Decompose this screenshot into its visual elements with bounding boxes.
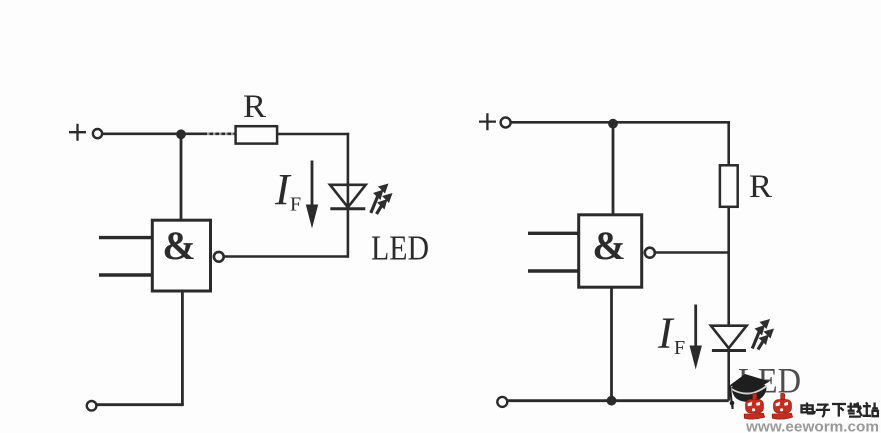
svg-text:www.eeworm.com: www.eeworm.com xyxy=(745,419,879,433)
svg-text:LED: LED xyxy=(371,229,429,268)
svg-text:F: F xyxy=(674,337,685,359)
svg-text:R: R xyxy=(749,169,772,205)
svg-text:&: & xyxy=(592,223,625,268)
svg-text:R: R xyxy=(243,89,266,125)
svg-text:F: F xyxy=(290,194,301,216)
svg-text:I: I xyxy=(657,309,675,358)
svg-text:&: & xyxy=(162,223,195,268)
